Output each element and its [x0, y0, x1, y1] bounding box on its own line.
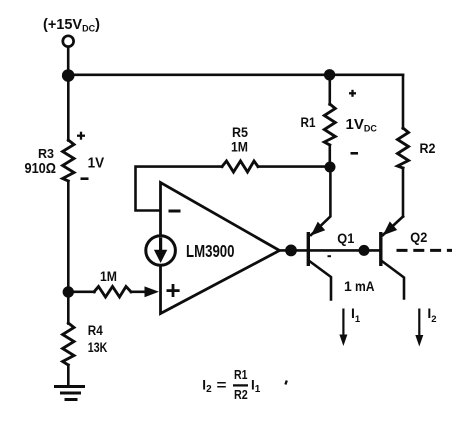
- svg-text:=: =: [217, 378, 227, 393]
- svg-text:910Ω: 910Ω: [25, 161, 57, 177]
- svg-text:R2: R2: [234, 387, 248, 402]
- svg-text:LM3900: LM3900: [186, 241, 235, 261]
- svg-text:Q2: Q2: [410, 230, 427, 245]
- svg-text:1M: 1M: [100, 269, 117, 284]
- svg-text:R2: R2: [420, 141, 436, 156]
- svg-text:R3: R3: [38, 146, 54, 161]
- svg-text:R1: R1: [301, 115, 316, 130]
- svg-text:13K: 13K: [88, 340, 108, 355]
- svg-text:R4: R4: [88, 323, 103, 338]
- svg-text:1: 1: [344, 278, 352, 294]
- svg-text:mA: mA: [355, 278, 375, 294]
- svg-text:R5: R5: [232, 125, 248, 140]
- svg-text:R1: R1: [234, 367, 248, 382]
- svg-text:Q1: Q1: [337, 231, 354, 246]
- svg-text:1V: 1V: [88, 155, 105, 172]
- svg-text:1M: 1M: [231, 139, 248, 154]
